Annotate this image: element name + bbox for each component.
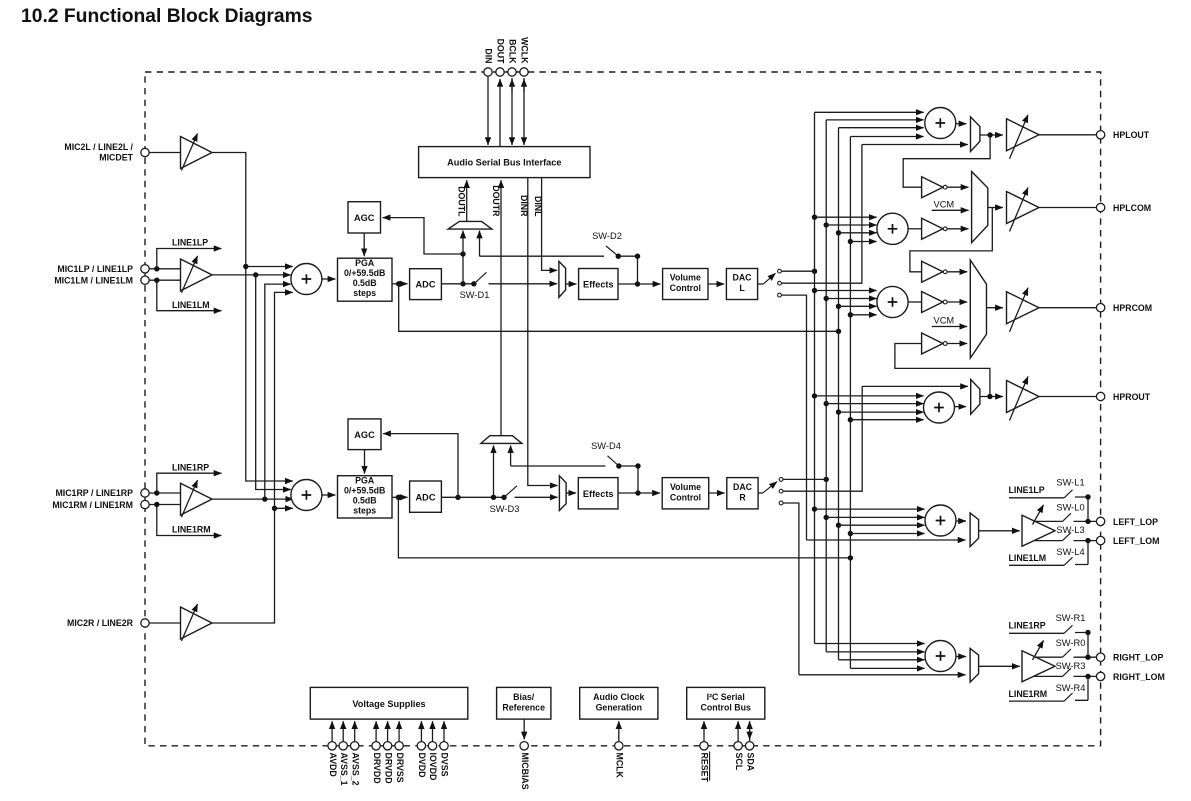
svg-text:DVSS: DVSS (440, 753, 450, 777)
wire bus2 to RIGHT_LO summer (826, 651, 924, 653)
block Effects R (578, 478, 618, 509)
wire DAC R throw1 to bus2 (783, 477, 829, 482)
svg-text:SW-D4: SW-D4 (591, 441, 621, 451)
wire SW-D1 to left DAC mux (489, 283, 558, 285)
svg-text:LINE1RP: LINE1RP (172, 462, 209, 472)
pin HPROUT (1096, 392, 1150, 402)
svg-text:DOUT: DOUT (496, 39, 506, 65)
wire inverter to HPRCOM mux low input (948, 343, 968, 345)
wire bus2 to HPLOUT summer (826, 119, 923, 121)
svg-text:SW-R4: SW-R4 (1056, 683, 1086, 693)
wire bus1 to RIGHT_LO summer (815, 643, 925, 645)
svg-text:steps: steps (353, 506, 376, 516)
svg-text:AVSS_2: AVSS_2 (350, 753, 360, 786)
wire HPLOUT summer to mux (956, 123, 967, 125)
net label DINL (533, 196, 543, 217)
wire MIC2L pin to amp (149, 152, 180, 154)
wire BCLK bidirectional (511, 78, 513, 145)
svg-text:LEFT_LOP: LEFT_LOP (1113, 517, 1158, 527)
block Effects L (579, 269, 618, 300)
amplifier MIC2L input PGA (181, 134, 213, 171)
block PGA R (338, 476, 393, 519)
summer right input mixer (291, 480, 322, 511)
pin AVSS_1 (339, 721, 349, 785)
wire DAC R throw2 to bus5b (783, 386, 862, 491)
block AGC R (348, 419, 381, 450)
inverter HPLCOM summer buffer (922, 218, 948, 239)
wire WCLK bidirectional (523, 78, 525, 145)
wire inverter to HPRCOM mux (948, 301, 968, 303)
block Bias/Reference (497, 687, 551, 719)
inverter HPLOUT to HPLCOM (922, 177, 948, 198)
pin DIN (484, 48, 494, 76)
wire DIN pin to U1 (487, 76, 489, 145)
summer HPRCOM mixer (877, 286, 908, 317)
svg-text:DRVDD: DRVDD (383, 753, 393, 784)
svg-text:VCM: VCM (934, 316, 955, 326)
svg-text:SW-L3: SW-L3 (1056, 525, 1084, 535)
summer LEFT_LO mixer (925, 505, 956, 536)
wire bus1 to HPRCOM summer (812, 288, 877, 293)
pin HPRCOM (1096, 303, 1152, 313)
wire bus1 DAC L analog routing spine (814, 112, 816, 643)
svg-text:0.5dB: 0.5dB (353, 278, 377, 288)
inverter HPLCOM to HPRCOM (922, 261, 948, 282)
wire inverter to HPLCOM mux (948, 186, 969, 188)
inverter HPROUT to HPRCOM (922, 333, 948, 354)
mux HPLCOM output select (972, 172, 988, 243)
wire DAC L throw3 to LEFT_LO mux (807, 539, 966, 541)
svg-text:MIC1RM / LINE1RM: MIC1RM / LINE1RM (52, 500, 133, 510)
pin HPLCOM (1096, 203, 1151, 213)
wire bus4 to RIGHT_LO summer (850, 667, 924, 669)
mux LEFT_LO output select (970, 513, 979, 547)
svg-text:LINE1RM: LINE1RM (172, 525, 211, 535)
wire ADC R output to AGC R (383, 434, 461, 500)
svg-text:SW-D3: SW-D3 (490, 504, 520, 514)
svg-text:MICDET: MICDET (99, 153, 133, 163)
wire LINE1RM stub (157, 505, 222, 536)
mux DOUTL select (448, 221, 492, 229)
wire HPRCOM amp to pin (1039, 307, 1096, 309)
wire MIC1L amp output to right summer (256, 275, 291, 490)
summer RIGHT_LO mixer (925, 641, 956, 672)
svg-text:DAC: DAC (733, 482, 753, 492)
svg-text:MCLK: MCLK (614, 753, 624, 779)
svg-text:IOVDD: IOVDD (428, 753, 438, 781)
svg-text:RIGHT_LOM: RIGHT_LOM (1113, 672, 1165, 682)
pin LEFT_LOM (1096, 536, 1159, 546)
svg-text:Audio Serial Bus Interface: Audio Serial Bus Interface (447, 158, 561, 168)
svg-text:Volume: Volume (670, 482, 701, 492)
wire AGC L to PGA L (363, 233, 365, 256)
svg-text:SW-L1: SW-L1 (1056, 477, 1084, 487)
wire bus3 to HPRCOM summer (836, 304, 877, 309)
wire DOUTR U1 input (500, 180, 502, 436)
wire bus2 to LEFT_LO summer (824, 515, 925, 520)
svg-text:MIC1RP / LINE1RP: MIC1RP / LINE1RP (55, 488, 133, 498)
wire HPROUT feedback to inverter (895, 344, 990, 397)
svg-text:I²C Serial: I²C Serial (707, 692, 745, 702)
wire bus4 PGA R analog bypass spine (849, 137, 851, 669)
svg-text:Voltage Supplies: Voltage Supplies (352, 699, 425, 709)
pin WCLK (520, 68, 528, 76)
wire LEFT_LO mux to amp (979, 530, 1020, 532)
svg-text:SW-D1: SW-D1 (460, 290, 490, 300)
pin label BCLK (508, 39, 518, 64)
wire HPLCOM feedback to inverter (910, 208, 992, 272)
mux HPROUT output select (971, 380, 980, 415)
amplifier MIC2R input PGA (181, 604, 213, 641)
wire MIC1RM to amp (149, 502, 180, 507)
svg-text:Volume: Volume (670, 273, 701, 283)
pin MIC2R/LINE2R (67, 618, 149, 628)
svg-text:AGC: AGC (354, 213, 375, 223)
wire MIC2R pin to amp (149, 622, 180, 624)
wire DAC R throw3 to RIGHT_LO mux (799, 674, 966, 676)
wire bus5a to HPLOUT mux (862, 144, 968, 146)
svg-text:MIC1LP / LINE1LP: MIC1LP / LINE1LP (57, 264, 133, 274)
wire DINL U1 to left mux (542, 178, 558, 271)
svg-text:DINR: DINR (519, 195, 529, 217)
wire MIC2L amp output to routing (212, 153, 293, 482)
svg-text:SW-R0: SW-R0 (1056, 638, 1086, 648)
block Volume Control L (663, 269, 708, 300)
svg-text:Effects: Effects (583, 280, 614, 290)
wire RIGHT_LO summer to mux (956, 656, 966, 658)
wire DOUTL mux to U1 (466, 180, 468, 222)
svg-text:ADC: ADC (416, 493, 436, 503)
switch SW-R4 LINE1RM (1009, 676, 1089, 701)
wire bus3 to HPLCOM summer (836, 230, 877, 235)
svg-text:SW-L4: SW-L4 (1056, 547, 1084, 557)
svg-text:MIC2L / LINE2L /: MIC2L / LINE2L / (64, 142, 133, 152)
switch SW-R3 amp negative out (1034, 661, 1096, 679)
pin DRVSS (395, 721, 405, 783)
svg-text:LINE1RM: LINE1RM (1009, 689, 1048, 699)
wire PGA L to ADC L (392, 281, 408, 286)
svg-text:SDA: SDA (745, 753, 755, 772)
svg-text:DAC: DAC (732, 273, 752, 283)
pin AVSS_2 (350, 721, 360, 785)
wire bus5b to HPROUT mux (862, 385, 968, 387)
wire bus3 to RIGHT_LO summer (839, 659, 925, 661)
wire HPLOUT mux to amp (980, 132, 1003, 137)
wire MIC1RP to amp (149, 490, 180, 495)
svg-text:ADC: ADC (416, 280, 436, 290)
switch SW-L4 LINE1LM (1009, 541, 1089, 566)
svg-text:HPLOUT: HPLOUT (1113, 130, 1150, 140)
wire HPLCOM mux to amp (988, 207, 1003, 209)
svg-text:SW-D2: SW-D2 (592, 231, 622, 241)
svg-text:DRVDD: DRVDD (372, 753, 382, 784)
inverter HPRCOM summer buffer (922, 292, 948, 313)
wire pre-effects tap to DOUTR mux (510, 445, 512, 466)
svg-text:SW-R3: SW-R3 (1056, 661, 1086, 671)
wire RIGHT_LO mux to amp (979, 665, 1020, 667)
amplifier HPRCOM driver (1007, 288, 1040, 332)
svg-text:LINE1LM: LINE1LM (172, 300, 210, 310)
wire left summer to PGA L (322, 278, 336, 280)
switch DAC R output select (758, 478, 783, 505)
summer HPLCOM mixer (877, 213, 908, 244)
block DAC R (727, 478, 758, 509)
svg-text:HPRCOM: HPRCOM (1113, 303, 1152, 313)
block AGC L (348, 202, 381, 233)
svg-text:AVSS_1: AVSS_1 (339, 753, 349, 786)
svg-text:DVDD: DVDD (417, 753, 427, 778)
svg-text:LINE1RP: LINE1RP (1009, 621, 1046, 631)
pin DVDD (417, 721, 427, 777)
amplifier MIC1R input PGA (181, 480, 213, 517)
pin MIC1RP/LINE1RP (55, 488, 149, 498)
svg-text:DRVSS: DRVSS (395, 753, 405, 783)
block ADC R (410, 481, 442, 512)
wire HPLCOM summer to inverter (908, 228, 921, 230)
wire MIC1L amp output to left summer (212, 272, 291, 277)
pin RESET active low (700, 721, 710, 782)
wire bus4 to LEFT_LO summer (848, 531, 925, 536)
svg-text:MIC1LM / LINE1LM: MIC1LM / LINE1LM (54, 276, 133, 286)
pin RIGHT_LOM (1096, 672, 1164, 682)
svg-text:BCLK: BCLK (508, 39, 518, 64)
wire bus2 to HPRCOM summer (824, 296, 877, 301)
wire bus2 to HPLCOM summer (824, 222, 877, 227)
wire bus4 to HPLCOM summer (848, 239, 877, 244)
chip boundary (dashed border) (145, 72, 1101, 746)
net label DINR (519, 195, 529, 217)
wire DAC L throw3 down (782, 295, 807, 540)
block Volume Control R (662, 478, 709, 509)
pin label WCLK (520, 37, 530, 64)
svg-text:HPLCOM: HPLCOM (1113, 203, 1151, 213)
wire right summer to PGA R (322, 494, 336, 496)
wire bus4 to HPRCOM summer (848, 312, 877, 317)
mux right digital input select (559, 476, 566, 511)
switch SW-L1 LINE1LP (1009, 477, 1091, 521)
svg-text:LINE1LM: LINE1LM (1009, 553, 1047, 563)
block Audio Clock Generation (580, 687, 658, 719)
wire LINE1LP stub (157, 238, 222, 269)
wire bus1 to HPLOUT summer (815, 111, 924, 113)
amplifier MIC1L input PGA (181, 256, 213, 293)
net VCM input HPRCOM mux (932, 316, 968, 327)
wire mux to Effects R (566, 492, 576, 494)
pin SCL (734, 721, 744, 771)
junction MIC2R to right summer (272, 506, 293, 511)
switch DAC L output select (758, 269, 782, 297)
pin MIC1RM/LINE1RM (52, 500, 149, 510)
wire bus3 PGA L analog bypass spine (838, 128, 840, 660)
svg-text:Control: Control (670, 492, 701, 502)
amplifier RIGHT_LO driver (1022, 640, 1055, 681)
switch SW-D1 (460, 272, 490, 300)
amplifier HPLOUT driver (1007, 115, 1040, 159)
svg-text:AGC: AGC (354, 430, 375, 440)
svg-text:0.5dB: 0.5dB (353, 496, 377, 506)
wire bus3 to HPROUT summer (836, 409, 924, 414)
svg-text:LEFT_LOM: LEFT_LOM (1113, 536, 1159, 546)
svg-text:R: R (739, 492, 746, 502)
wire bus1 to LEFT_LO summer (812, 506, 925, 511)
wire bus4 to HPROUT summer (848, 417, 924, 422)
wire mux to Effects L (566, 283, 577, 285)
svg-text:10.2 Functional Block Diagrams: 10.2 Functional Block Diagrams (21, 6, 312, 27)
svg-text:Reference: Reference (502, 702, 545, 712)
wire HPROUT amp to pin (1039, 396, 1096, 398)
wire pre-effects tap to DOUTL mux (479, 231, 481, 257)
wire MIC2R amp output to left summer (212, 292, 293, 623)
wire ADC L output to SW-D1 (441, 281, 476, 286)
block Voltage Supplies (310, 687, 468, 719)
svg-text:Audio Clock: Audio Clock (593, 692, 644, 702)
mux RIGHT_LO output select (970, 648, 979, 682)
svg-text:LINE1LP: LINE1LP (1009, 485, 1045, 495)
pin MICBIAS output (520, 719, 530, 790)
block DAC L (726, 269, 757, 300)
mux left digital input select (559, 261, 566, 297)
wire DAC L throw1 to bus1 (782, 269, 817, 274)
pin RIGHT_LOP (1096, 653, 1163, 663)
wire MIC1LM to amp (149, 278, 180, 283)
svg-text:DIN: DIN (484, 48, 494, 63)
wire inverter to HPLCOM mux low input (948, 228, 969, 230)
pin SDA bidirectional (745, 721, 755, 772)
wire bus2 DAC R analog routing spine (825, 120, 827, 652)
switch SW-L0 amp positive out (1035, 502, 1096, 524)
wire Volume Control R to DAC R (709, 492, 725, 494)
svg-text:PGA: PGA (355, 258, 375, 268)
wire ADC R node to DOUTR mux (491, 445, 496, 500)
svg-text:DOUTR: DOUTR (491, 185, 501, 217)
svg-text:0/+59.5dB: 0/+59.5dB (344, 268, 385, 278)
svg-text:SCL: SCL (734, 753, 744, 771)
wire inverter to HPRCOM mux (948, 271, 968, 273)
wire DINR U1 to right mux (528, 178, 558, 486)
svg-text:steps: steps (353, 288, 376, 298)
summer HPLOUT mixer (925, 108, 956, 139)
svg-text:Generation: Generation (596, 702, 642, 712)
svg-text:Control: Control (670, 283, 701, 293)
svg-text:VCM: VCM (934, 199, 955, 209)
svg-text:L: L (739, 283, 745, 293)
summer HPROUT mixer (924, 392, 955, 423)
svg-text:SW-L0: SW-L0 (1056, 502, 1084, 512)
wire MIC1R amp output to right summer (212, 496, 293, 501)
net VCM input HPLCOM mux (932, 199, 969, 210)
wire bus3 to LEFT_LO summer (836, 523, 925, 528)
wire AGC R to PGA R (364, 450, 366, 474)
pin IOVDD (428, 721, 438, 780)
pin HPLOUT (1096, 130, 1149, 140)
wire DAC L throw2 to bus5a (782, 145, 862, 284)
pin MIC1LM/LINE1LM (54, 276, 149, 286)
wire bus1 to HPLCOM summer (812, 215, 877, 220)
svg-text:SW-R1: SW-R1 (1056, 613, 1086, 623)
wire Effects L to Volume Control L (618, 281, 660, 286)
block PGA L (338, 258, 393, 301)
svg-text:0/+59.5dB: 0/+59.5dB (344, 486, 385, 496)
pin LEFT_LOP (1096, 517, 1158, 527)
svg-text:Control Bus: Control Bus (701, 702, 751, 712)
mux HPRCOM output select (970, 260, 986, 358)
pin DRVDD second (383, 721, 393, 783)
wire ADC R output to SW-D3 (441, 495, 506, 500)
switch SW-D4 bypass (511, 441, 641, 493)
wire Volume Control L to DAC L (708, 283, 724, 285)
pin MIC2L/LINE2L/MICDET (64, 142, 149, 163)
pin MCLK (614, 721, 624, 778)
svg-text:RESET: RESET (700, 753, 710, 783)
amplifier HPLCOM driver (1007, 188, 1040, 232)
wire PGA R to ADC R (392, 495, 408, 500)
wire HPRCOM mux to amp (987, 307, 1003, 309)
pin DVSS (440, 721, 450, 776)
pin label DOUT (496, 39, 506, 65)
wire HPLCOM amp to pin (1039, 207, 1096, 209)
wire DAC R throw3 down (783, 503, 799, 675)
svg-text:WCLK: WCLK (520, 37, 530, 64)
wire PGA L analog bypass to bus3 (399, 284, 842, 334)
pin DOUT (496, 68, 504, 76)
svg-text:MIC2R / LINE2R: MIC2R / LINE2R (67, 618, 134, 628)
block I2C Serial Control Bus (687, 687, 765, 719)
block ADC L (410, 269, 442, 300)
wire bus1 to HPROUT summer (812, 393, 924, 398)
wire ADC L node to DOUTL mux (462, 231, 464, 254)
wire bus2 to HPROUT summer (824, 401, 924, 406)
wire HPLOUT amp to pin (1039, 134, 1096, 136)
summer left input mixer (291, 264, 322, 295)
wire HPRCOM summer to inverter (908, 301, 921, 303)
wire HPROUT mux to amp (980, 394, 1003, 399)
svg-text:RIGHT_LOP: RIGHT_LOP (1113, 653, 1163, 663)
net label DOUTR (491, 185, 501, 217)
svg-text:DINL: DINL (533, 196, 543, 217)
wire LINE1RP stub (157, 462, 222, 493)
mux DOUTR select (481, 436, 522, 444)
junction MIC2L to left summer (243, 264, 293, 269)
wire HPROUT summer to mux (955, 406, 967, 408)
amplifier HPROUT driver (1007, 377, 1040, 421)
switch SW-R0 amp positive out (1035, 638, 1096, 660)
wire MIC1LP to amp (149, 266, 180, 271)
mux HPLOUT output select (971, 117, 980, 152)
wire bus3 to HPLOUT summer (839, 127, 924, 129)
svg-text:DOUTL: DOUTL (456, 186, 466, 217)
svg-text:Effects: Effects (583, 489, 614, 499)
switch SW-D3 (490, 486, 520, 514)
wire ADC L output to AGC L (383, 218, 466, 287)
wire HPLOUT feedback to inverter (903, 135, 990, 187)
wire LINE1LM stub (157, 280, 222, 311)
wire DOUT U1 to pin (499, 79, 501, 147)
pin DRVDD first (372, 721, 382, 783)
net label DOUTL (456, 186, 466, 217)
pin MIC1LP/LINE1LP (57, 264, 149, 274)
svg-text:MICBIAS: MICBIAS (520, 753, 530, 790)
block U1 Audio Serial Bus Interface (419, 147, 590, 178)
wire SW-D3 to right DAC mux (515, 496, 558, 498)
wire PGA R analog bypass to bus4 (398, 497, 853, 560)
switch SW-R1 LINE1RP (1009, 613, 1091, 657)
switch SW-L3 amp negative out (1034, 525, 1096, 543)
amplifier LEFT_LO driver (1022, 505, 1055, 546)
wire Effects R to Volume Control R (618, 490, 660, 495)
svg-text:LINE1LP: LINE1LP (172, 238, 208, 248)
pin BCLK (508, 68, 516, 76)
wire bus4 to HPLOUT summer (850, 136, 923, 138)
